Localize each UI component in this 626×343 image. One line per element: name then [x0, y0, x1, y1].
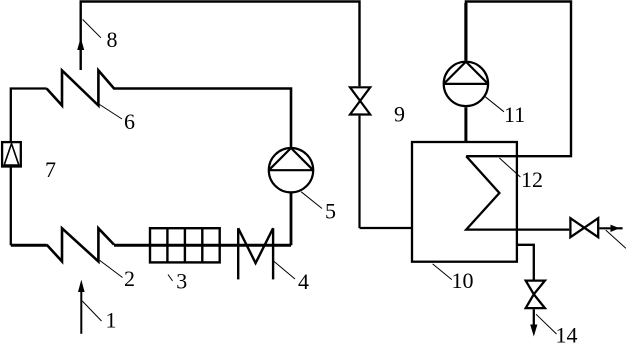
- svg-text:10: 10: [452, 268, 474, 293]
- svg-text:6: 6: [124, 109, 135, 134]
- svg-text:4: 4: [298, 269, 309, 294]
- svg-text:3: 3: [176, 269, 187, 294]
- svg-text:12: 12: [521, 167, 543, 192]
- svg-text:11: 11: [504, 102, 525, 127]
- svg-text:9: 9: [394, 102, 405, 127]
- svg-text:5: 5: [325, 199, 336, 224]
- svg-text:8: 8: [107, 27, 118, 52]
- svg-text:7: 7: [45, 157, 56, 182]
- svg-text:14: 14: [556, 323, 578, 343]
- svg-text:2: 2: [124, 266, 135, 291]
- svg-text:1: 1: [106, 308, 117, 333]
